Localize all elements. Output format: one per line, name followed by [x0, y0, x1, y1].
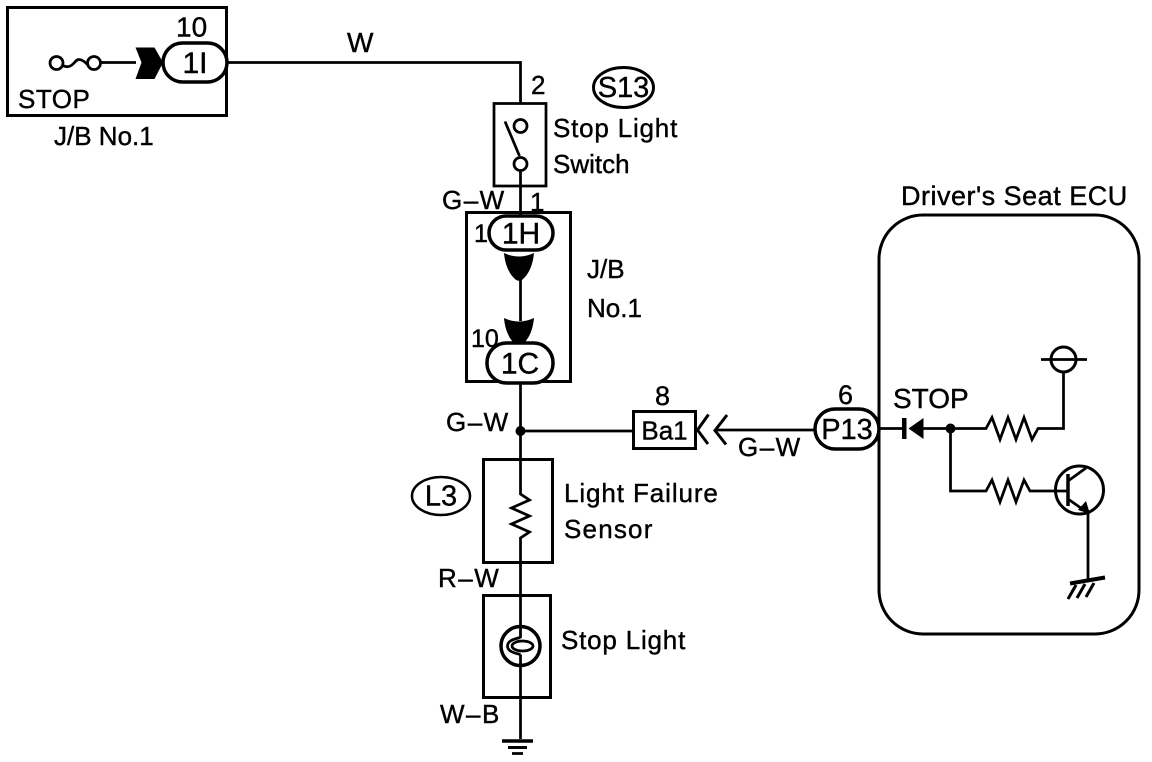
svg-text:8: 8 — [655, 381, 670, 411]
svg-text:10: 10 — [176, 12, 207, 43]
svg-text:G–W: G–W — [738, 432, 802, 462]
svg-text:1H: 1H — [502, 218, 540, 251]
svg-text:W–B: W–B — [440, 699, 501, 729]
svg-text:1: 1 — [474, 220, 488, 248]
svg-text:Sensor: Sensor — [564, 514, 654, 544]
svg-text:Ba1: Ba1 — [641, 416, 687, 446]
svg-text:Stop Light: Stop Light — [553, 113, 678, 143]
svg-text:1I: 1I — [182, 47, 207, 80]
svg-text:10: 10 — [471, 325, 499, 353]
svg-text:STOP: STOP — [18, 84, 90, 114]
svg-text:J/B: J/B — [587, 254, 625, 284]
svg-text:No.1: No.1 — [587, 293, 642, 323]
svg-text:Switch: Switch — [553, 149, 630, 179]
svg-text:1C: 1C — [501, 348, 539, 381]
svg-text:J/B No.1: J/B No.1 — [54, 121, 154, 151]
svg-text:W: W — [347, 27, 374, 58]
svg-text:Light Failure: Light Failure — [564, 478, 719, 508]
svg-text:P13: P13 — [821, 414, 873, 446]
svg-text:L3: L3 — [425, 481, 457, 513]
svg-text:G–W: G–W — [442, 185, 506, 215]
svg-text:6: 6 — [838, 380, 853, 410]
svg-text:R–W: R–W — [438, 563, 500, 593]
svg-text:Driver's Seat ECU: Driver's Seat ECU — [901, 181, 1128, 211]
svg-text:S13: S13 — [598, 72, 650, 104]
svg-text:G–W: G–W — [446, 407, 510, 437]
svg-text:Stop Light: Stop Light — [561, 625, 686, 655]
svg-text:2: 2 — [531, 70, 545, 100]
svg-text:1: 1 — [530, 187, 544, 217]
svg-text:STOP: STOP — [893, 383, 969, 414]
